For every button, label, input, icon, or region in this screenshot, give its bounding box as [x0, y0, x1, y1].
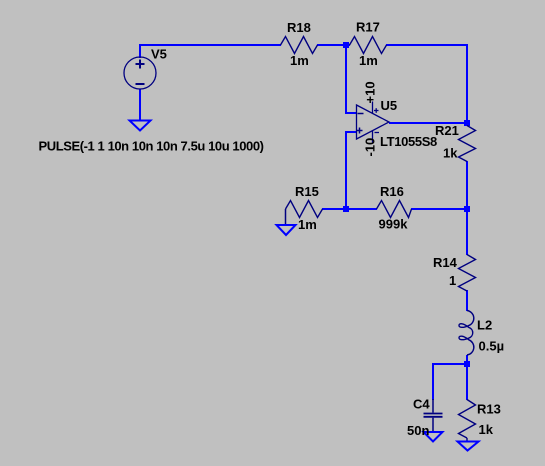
wire R16 to right column: [411, 208, 467, 210]
svg-text:0.5µ: 0.5µ: [479, 339, 505, 354]
svg-text:L2: L2: [477, 317, 492, 332]
svg-text:+10: +10: [363, 81, 378, 103]
wire right column R21 to node: [466, 161, 468, 209]
wire middle column noninverting to node: [345, 131, 347, 209]
svg-text:LT1055S8: LT1055S8: [380, 134, 437, 149]
resistor R14: [459, 255, 476, 292]
inductor L2: [459, 311, 474, 356]
wire node to R16: [346, 208, 377, 210]
wire node to R13: [466, 366, 468, 400]
op-amp U5 supply pin stubs: [372, 102, 374, 114]
resistor R18: [281, 37, 318, 54]
ground below R13: [458, 442, 479, 451]
svg-text:R17: R17: [356, 20, 380, 35]
op-amp U5 triangle: [357, 105, 390, 139]
resistor R15 left bend lead: [285, 209, 287, 225]
wire top horizontal V5 to R18: [139, 44, 281, 46]
resistor R13 bottom stub: [466, 438, 468, 442]
wire V5 bottom lead: [139, 89, 141, 120]
svg-text:999k: 999k: [379, 216, 409, 231]
wire L2 to node: [466, 355, 468, 365]
svg-text:1k: 1k: [443, 146, 458, 161]
junction R18/R17 node: [343, 42, 349, 48]
svg-text:V5: V5: [151, 46, 167, 61]
resistor R17: [350, 37, 387, 54]
resistor R13: [459, 400, 476, 439]
svg-text:R13: R13: [477, 402, 501, 417]
wire R18 to R17: [317, 44, 350, 46]
wire node to R14: [466, 209, 468, 255]
op-amp noninverting input plus mark: [357, 130, 363, 132]
svg-text:1m: 1m: [298, 217, 317, 232]
ground below C4: [424, 432, 443, 442]
resistor R21: [459, 126, 476, 162]
svg-text:50n: 50n: [407, 423, 429, 438]
svg-text:C4: C4: [413, 396, 430, 411]
junction L2/C4/R13 node: [464, 361, 470, 367]
junction R16 right node: [464, 206, 470, 212]
wire node to C4 horizontal: [432, 363, 467, 365]
op-amp positive supply plus mark: [374, 110, 379, 112]
capacitor C4: [424, 399, 443, 432]
svg-text:R16: R16: [380, 184, 404, 199]
wire V5 top lead: [139, 44, 141, 58]
svg-text:-10: -10: [363, 138, 378, 157]
wire R17 to right corner: [386, 44, 468, 46]
resistor R15: [286, 201, 323, 218]
wire right column top: [466, 44, 468, 124]
ground below V5: [130, 121, 151, 131]
svg-text:1m: 1m: [359, 53, 378, 68]
svg-text:U5: U5: [381, 98, 398, 113]
op-amp negative supply minus mark: [375, 132, 380, 134]
svg-text:R15: R15: [295, 184, 319, 199]
resistor R16: [377, 201, 412, 218]
svg-text:R21: R21: [435, 123, 459, 138]
wire middle column to inverting input: [345, 44, 347, 114]
wire inverting input stub: [345, 112, 357, 114]
svg-text:PULSE(-1 1 10n 10n 10n 7.5u 10: PULSE(-1 1 10n 10n 10n 7.5u 10u 1000): [39, 139, 264, 154]
junction op-amp output node: [464, 120, 470, 126]
svg-text:1m: 1m: [290, 53, 309, 68]
op-amp inverting input minus mark: [358, 113, 364, 115]
wire noninverting input stub: [345, 131, 357, 133]
wire op-amp output: [389, 122, 467, 124]
svg-text:R18: R18: [287, 20, 311, 35]
svg-text:R14: R14: [433, 255, 458, 270]
wire R15 to node: [322, 208, 347, 210]
ground below R15: [277, 225, 296, 235]
wire R14 to L2: [466, 290, 468, 311]
svg-text:1k: 1k: [479, 422, 494, 437]
wire C4 vertical: [432, 363, 434, 400]
junction R15/R16 node: [343, 206, 349, 212]
svg-text:1: 1: [449, 273, 456, 288]
voltage source V5: [124, 57, 156, 89]
